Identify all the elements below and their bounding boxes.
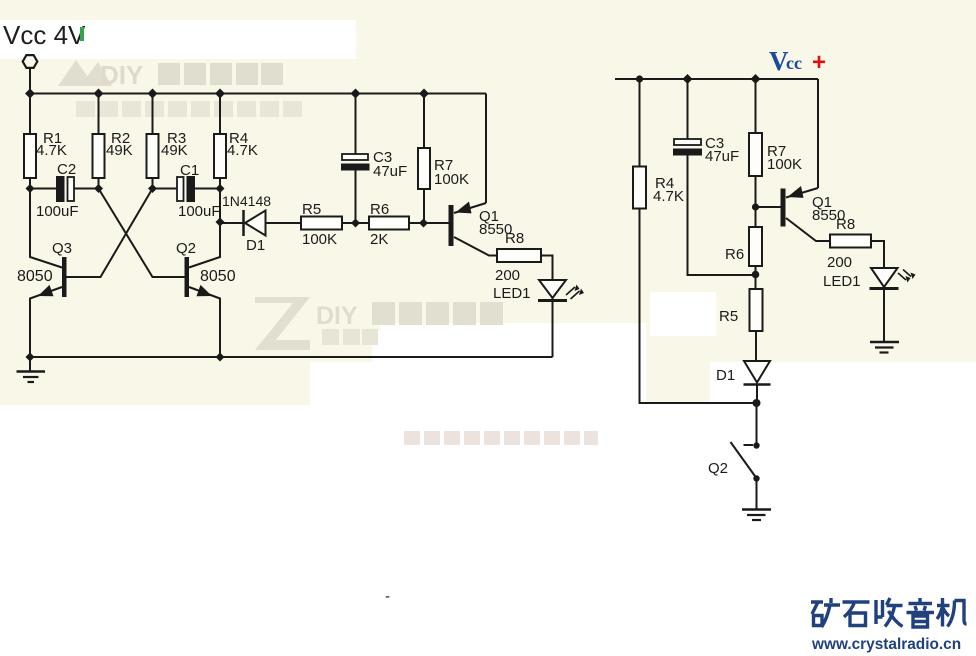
node rail-Q2 [216,353,225,362]
node rail-Q3 [26,353,35,362]
capacitor C2 [56,176,65,202]
capacitor C1 [177,177,184,201]
resistor R4 [214,134,226,178]
wire R1 top [29,94,31,135]
svg-text:100K: 100K [434,171,469,188]
wire Vcc bus [30,93,486,95]
svg-text:4.7K: 4.7K [653,188,684,205]
wire R6 bottom [755,266,757,289]
svg-text:cc: cc [786,53,802,73]
white patch top-left [0,20,356,59]
wire Q2 base to R2 (diagonal) [99,189,185,278]
node bus-R7 [751,74,761,84]
wire LED1 to rail [552,298,554,357]
wire R4 top [639,79,641,167]
svg-text:D1: D1 [246,237,265,254]
svg-text:C2: C2 [57,161,76,178]
svg-text:200: 200 [495,267,520,284]
wire R4 bottom long [640,209,757,404]
wire D1 to node [756,386,758,404]
node C1-R4 [216,184,225,193]
wire R3 to C1 [153,188,178,190]
wire R3 top [152,94,154,135]
wire R1 to C2 [30,188,56,190]
wire R7 top [423,94,425,149]
white patch mid [372,330,646,406]
svg-text:-: - [385,588,390,605]
svg-text:8050: 8050 [17,268,53,285]
transistor Q1 [449,205,454,246]
node R6-C3 junction [752,271,760,279]
svg-text:4.7K: 4.7K [227,142,258,159]
wire Q3 emitter [30,287,62,357]
svg-text:8050: 8050 [200,268,236,285]
wire Q2 emitter [189,287,220,357]
background cream area [0,0,976,362]
wire terminal to bus [29,69,31,94]
Q1 emitter arrow [456,202,472,214]
svg-text:R5: R5 [719,308,738,325]
wire R2 bottom [98,178,100,189]
svg-text:R6: R6 [725,246,744,263]
wire C3 bottom [355,171,357,224]
wire R8 to LED [541,256,553,281]
LED LED1 [539,280,566,298]
wire C2 to R2 [74,188,99,190]
node R1-C2 [26,184,35,193]
svg-text:DIY: DIY [316,302,358,330]
node C2-R2 [94,184,103,193]
svg-text:Q2: Q2 [708,460,728,477]
svg-text:R8: R8 [505,230,524,247]
resistor R2 [93,134,105,178]
resistor R5 [750,289,763,331]
svg-text:100K: 100K [767,156,802,173]
wire C3 top [355,94,357,155]
wire Q1 collector [786,218,830,241]
wire to D1 [220,222,243,224]
wire Q1 emitter [786,188,818,198]
char 收 [876,598,903,627]
svg-text:100uF: 100uF [178,203,221,220]
wire ground rail [30,356,553,358]
wire R4 top [219,94,221,135]
watermark bottom faint [404,431,598,445]
transistor Q3 [62,257,67,297]
svg-text:Q2: Q2 [176,240,196,257]
resistor R6 [369,217,409,230]
svg-text:2K: 2K [370,231,388,248]
node bus-C3 [683,74,693,84]
svg-text:49K: 49K [106,142,133,159]
svg-text:R6: R6 [370,201,389,218]
resistor R5 [301,217,342,230]
transistor Q1 [781,189,786,227]
resistor R6 [749,227,762,266]
wire switch to ground [756,479,758,509]
svg-text:49K: 49K [161,142,188,159]
svg-text:47uF: 47uF [373,163,407,180]
svg-text:1N4148: 1N4148 [222,193,271,209]
diode D1 [242,210,245,236]
wire Q1 collector [454,237,497,256]
resistor R8 [497,249,541,262]
white bottom band [0,405,976,656]
watermark top line2 [76,101,302,117]
wire R5 to R6 [342,222,369,224]
watermark middle Z logo [255,297,310,350]
wire Q3 base to R3 (diagonal) [67,189,153,278]
wire node to switch [756,403,758,444]
wire R3 bottom [152,178,154,189]
wire R5 to D1 [755,331,757,361]
wire LED to ground [883,289,885,343]
node base junction [752,203,759,210]
resistor R4 [633,167,646,209]
svg-text:LED1: LED1 [493,285,531,302]
LED1 light arrows [898,270,911,281]
wire Vcc bus right [615,78,818,80]
wire Q1 emitter [454,203,486,213]
Q1 emitter arrow [788,186,804,198]
capacitor C3 [342,154,368,160]
svg-text:C1: C1 [180,162,199,179]
svg-text:D1: D1 [716,367,735,384]
resistor R1 [24,134,36,178]
svg-text:R5: R5 [302,201,321,218]
node bus-C3 [351,89,361,99]
node bus-R4 [636,75,643,82]
ground [29,357,31,371]
char 机 [937,598,967,627]
wire R1 bottom [29,178,31,189]
char 石 [843,602,870,626]
wire D1 to R5 [266,222,302,224]
svg-text:Q3: Q3 [52,240,72,257]
wire R7 bottom [755,176,757,227]
char 音 [907,598,935,627]
node R6-R7 [419,219,428,228]
wire base to Q1 [756,206,781,208]
watermark top line1 [58,60,112,86]
resistor R7 [749,133,762,176]
wire bus right drop to Q1 [485,94,487,204]
node R5-C3 [351,219,360,228]
wire R7 top [755,79,757,133]
wire bus drop to Q1 emitter [817,79,819,188]
char 矿 [811,598,840,627]
svg-text:R8: R8 [836,216,855,233]
diode D1 [744,361,770,383]
wire C3 bottom long [688,156,756,276]
svg-text:4.7K: 4.7K [36,142,67,159]
node bus-R1 [25,89,35,99]
watermark middle line2 [322,329,339,345]
wire R2 top [98,94,100,135]
transistor Q2 [185,257,190,297]
node D1-R4 junction [753,399,761,407]
svg-text:100K: 100K [302,231,337,248]
Vcc terminal [23,55,38,68]
ground switch [742,508,771,511]
svg-text:LED1: LED1 [823,273,861,290]
wire R6 to Q1 base [409,222,449,224]
node R3-C1 [148,184,157,193]
wire R4 bottom [219,178,221,189]
node D1 tap [216,218,225,227]
Q3 emitter arrow [38,285,54,296]
node bus-R7 [419,89,429,99]
resistor R3 [147,134,159,178]
capacitor C3 [674,139,701,145]
wire C1 to R4 [195,188,220,190]
svg-text:Vcc 4V: Vcc 4V [3,20,86,50]
svg-text:DIY: DIY [100,60,143,90]
wire Q3 collector [30,189,62,268]
svg-text:+: + [812,49,826,76]
LED LED1 [871,268,898,287]
svg-text:www.crystalradio.cn: www.crystalradio.cn [811,636,961,653]
wire Q2 collector [189,189,220,268]
wire R7 bottom [423,189,425,223]
svg-text:200: 200 [827,254,852,271]
svg-text:47uF: 47uF [705,148,739,165]
node bus-R2 [94,89,104,99]
node bus-R4 [215,89,225,99]
green tick [80,27,84,41]
resistor R8 [830,235,871,248]
wire C3 top [687,79,689,139]
Q2 emitter arrow [197,285,213,296]
crystalradio logo: 矿石收音机 hand-drawn [811,598,967,627]
LED1 light arrows [566,287,580,299]
node bus-R3 [148,89,158,99]
ground right-LED [870,341,899,344]
resistor R7 [418,148,430,189]
switch Q2 [744,444,754,446]
wire R8 to LED [871,241,884,268]
svg-text:100uF: 100uF [36,203,79,220]
